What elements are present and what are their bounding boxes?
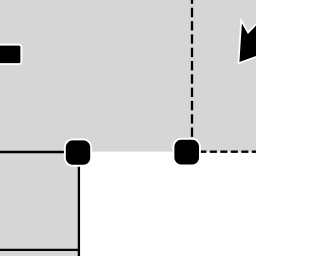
black rectangle marker at left edge: [0, 46, 20, 64]
wire: dashed horizontal way right of node B: [199, 151, 256, 153]
node B (black rounded-square marker with white halo): [174, 140, 199, 165]
wire: dashed vertical way above node B: [191, 0, 193, 150]
map area (light gray landuse polygon): [0, 0, 256, 256]
arrow cursor pointing down-left (top right): [239, 22, 259, 62]
wire: solid vertical boundary line below node A: [78, 152, 80, 256]
node A (black rounded-square marker with white halo): [66, 140, 90, 164]
wire: solid horizontal line near bottom: [0, 249, 80, 251]
wire: solid boundary line left of node A: [0, 151, 79, 154]
